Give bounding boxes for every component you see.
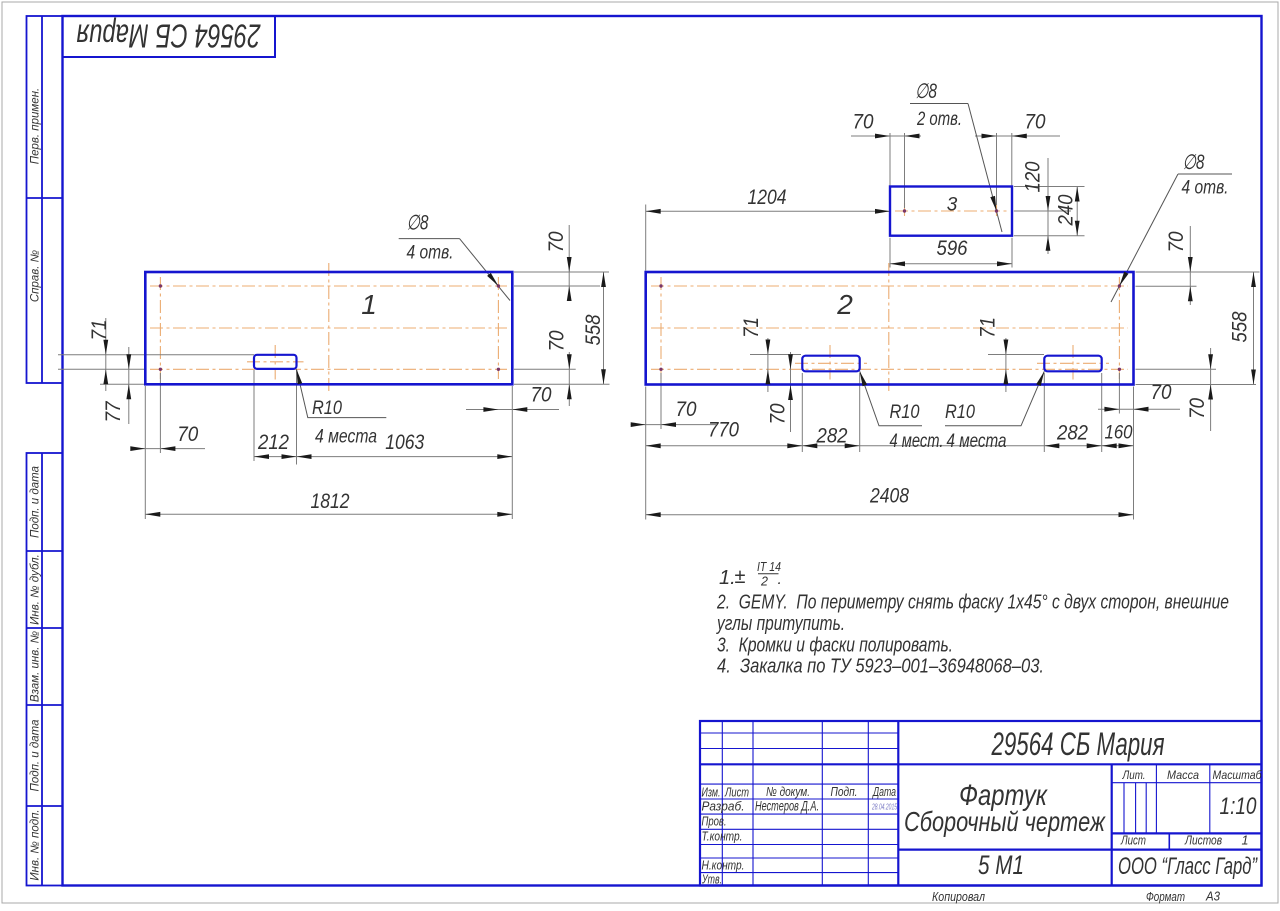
svg-text:R10: R10	[312, 398, 342, 419]
svg-text:Нестеров Д.А.: Нестеров Д.А.	[755, 799, 819, 814]
svg-text:Т.контр.: Т.контр.	[702, 829, 743, 844]
svg-text:558: 558	[1229, 311, 1252, 342]
svg-text:2 отв.: 2 отв.	[916, 109, 962, 130]
svg-text:Справ. №: Справ. №	[30, 249, 42, 302]
svg-text:282: 282	[816, 425, 848, 448]
svg-text:70: 70	[1151, 381, 1172, 404]
svg-text:А3: А3	[1205, 889, 1221, 904]
svg-text:Подп. и дата: Подп. и дата	[30, 466, 42, 538]
svg-text:212: 212	[257, 431, 289, 454]
svg-text:Утв.: Утв.	[701, 872, 722, 887]
svg-text:Формат: Формат	[1146, 889, 1185, 904]
svg-text:120: 120	[1022, 161, 1045, 192]
svg-text:1: 1	[1242, 834, 1249, 848]
svg-text:2408: 2408	[869, 485, 909, 508]
svg-text:2. GEMY. По периметру снять: 2. GEMY. По периметру снять фаску 1х45° …	[716, 592, 1229, 614]
svg-text:2: 2	[836, 289, 853, 320]
svg-text:∅8: ∅8	[1183, 151, 1205, 174]
svg-text:770: 770	[708, 419, 739, 442]
svg-text:Дата: Дата	[872, 784, 896, 799]
svg-text:4 отв.: 4 отв.	[407, 243, 454, 264]
svg-text:282: 282	[1056, 422, 1088, 445]
svg-text:70: 70	[531, 384, 552, 407]
svg-text:1.: 1.	[719, 567, 736, 589]
svg-text:71: 71	[88, 320, 111, 341]
svg-text:Разраб.: Разраб.	[702, 799, 745, 814]
svg-text:ООО “Гласс Гард”: ООО “Гласс Гард”	[1118, 853, 1258, 880]
svg-text:1204: 1204	[748, 186, 787, 209]
svg-text:Лист: Лист	[724, 785, 749, 800]
svg-text:70: 70	[676, 398, 697, 421]
svg-text:Листов: Листов	[1184, 834, 1222, 848]
svg-text:Масштаб: Масштаб	[1213, 768, 1263, 782]
svg-text:Н.контр.: Н.контр.	[702, 858, 745, 873]
svg-text:4. Закалка по ТУ 5923–001–369: 4. Закалка по ТУ 5923–001–36948068–03.	[717, 656, 1044, 678]
svg-text:70: 70	[767, 403, 790, 424]
svg-text:5 М1: 5 М1	[978, 850, 1024, 880]
svg-text:±: ±	[735, 566, 746, 588]
svg-text:.: .	[778, 571, 782, 588]
svg-text:70: 70	[545, 231, 568, 252]
svg-text:70: 70	[177, 423, 198, 446]
svg-text:Инв. № подп.: Инв. № подп.	[30, 809, 42, 880]
svg-text:70: 70	[853, 111, 874, 134]
svg-text:Пров.: Пров.	[702, 814, 727, 829]
svg-text:160: 160	[1105, 423, 1133, 444]
svg-text:71: 71	[977, 317, 1000, 338]
svg-text:№ докум.: № докум.	[766, 784, 810, 799]
svg-text:70: 70	[546, 330, 569, 351]
svg-text:3: 3	[947, 195, 958, 216]
svg-text:3. Кромки и фаски полировать.: 3. Кромки и фаски полировать.	[717, 635, 953, 657]
svg-text:4 места: 4 места	[947, 431, 1007, 452]
svg-text:R10: R10	[890, 402, 920, 423]
svg-text:596: 596	[937, 237, 968, 260]
svg-text:4 отв.: 4 отв.	[1182, 178, 1229, 199]
svg-text:77: 77	[102, 400, 125, 422]
svg-text:Лист: Лист	[1120, 834, 1146, 848]
svg-text:29564 СБ Мария: 29564 СБ Мария	[991, 726, 1165, 762]
svg-text:70: 70	[1186, 398, 1209, 419]
svg-text:Подп.: Подп.	[831, 784, 858, 799]
svg-text:1:10: 1:10	[1220, 793, 1258, 820]
svg-text:Взам. инв. №: Взам. инв. №	[30, 630, 42, 702]
svg-text:∅8: ∅8	[915, 80, 937, 103]
svg-text:∅8: ∅8	[407, 212, 429, 235]
svg-text:Копировал: Копировал	[932, 889, 986, 904]
svg-text:70: 70	[1025, 111, 1046, 134]
svg-text:240: 240	[1055, 194, 1078, 226]
svg-text:Изм.: Изм.	[702, 785, 721, 800]
svg-text:Лит.: Лит.	[1122, 768, 1146, 782]
svg-text:Инв. № дубл.: Инв. № дубл.	[30, 554, 42, 625]
svg-text:Перв. примен.: Перв. примен.	[30, 88, 42, 164]
svg-text:углы притупить.: углы притупить.	[715, 613, 845, 635]
svg-text:29564 СБ Мария: 29564 СБ Мария	[77, 18, 262, 55]
svg-text:2: 2	[760, 575, 768, 589]
svg-text:4 места: 4 места	[315, 427, 377, 448]
svg-text:558: 558	[582, 314, 605, 345]
svg-text:28.04.2015: 28.04.2015	[871, 802, 897, 812]
svg-text:1063: 1063	[385, 431, 424, 454]
svg-text:1812: 1812	[311, 490, 350, 513]
svg-text:Масса: Масса	[1167, 768, 1199, 782]
svg-text:1: 1	[361, 289, 377, 320]
svg-text:Сборочный чертеж: Сборочный чертеж	[904, 806, 1106, 837]
svg-text:71: 71	[740, 317, 763, 338]
svg-text:Подп. и дата: Подп. и дата	[30, 720, 42, 792]
svg-text:4 мест.: 4 мест.	[890, 431, 944, 452]
svg-text:R10: R10	[945, 402, 975, 423]
svg-text:70: 70	[1165, 231, 1188, 252]
